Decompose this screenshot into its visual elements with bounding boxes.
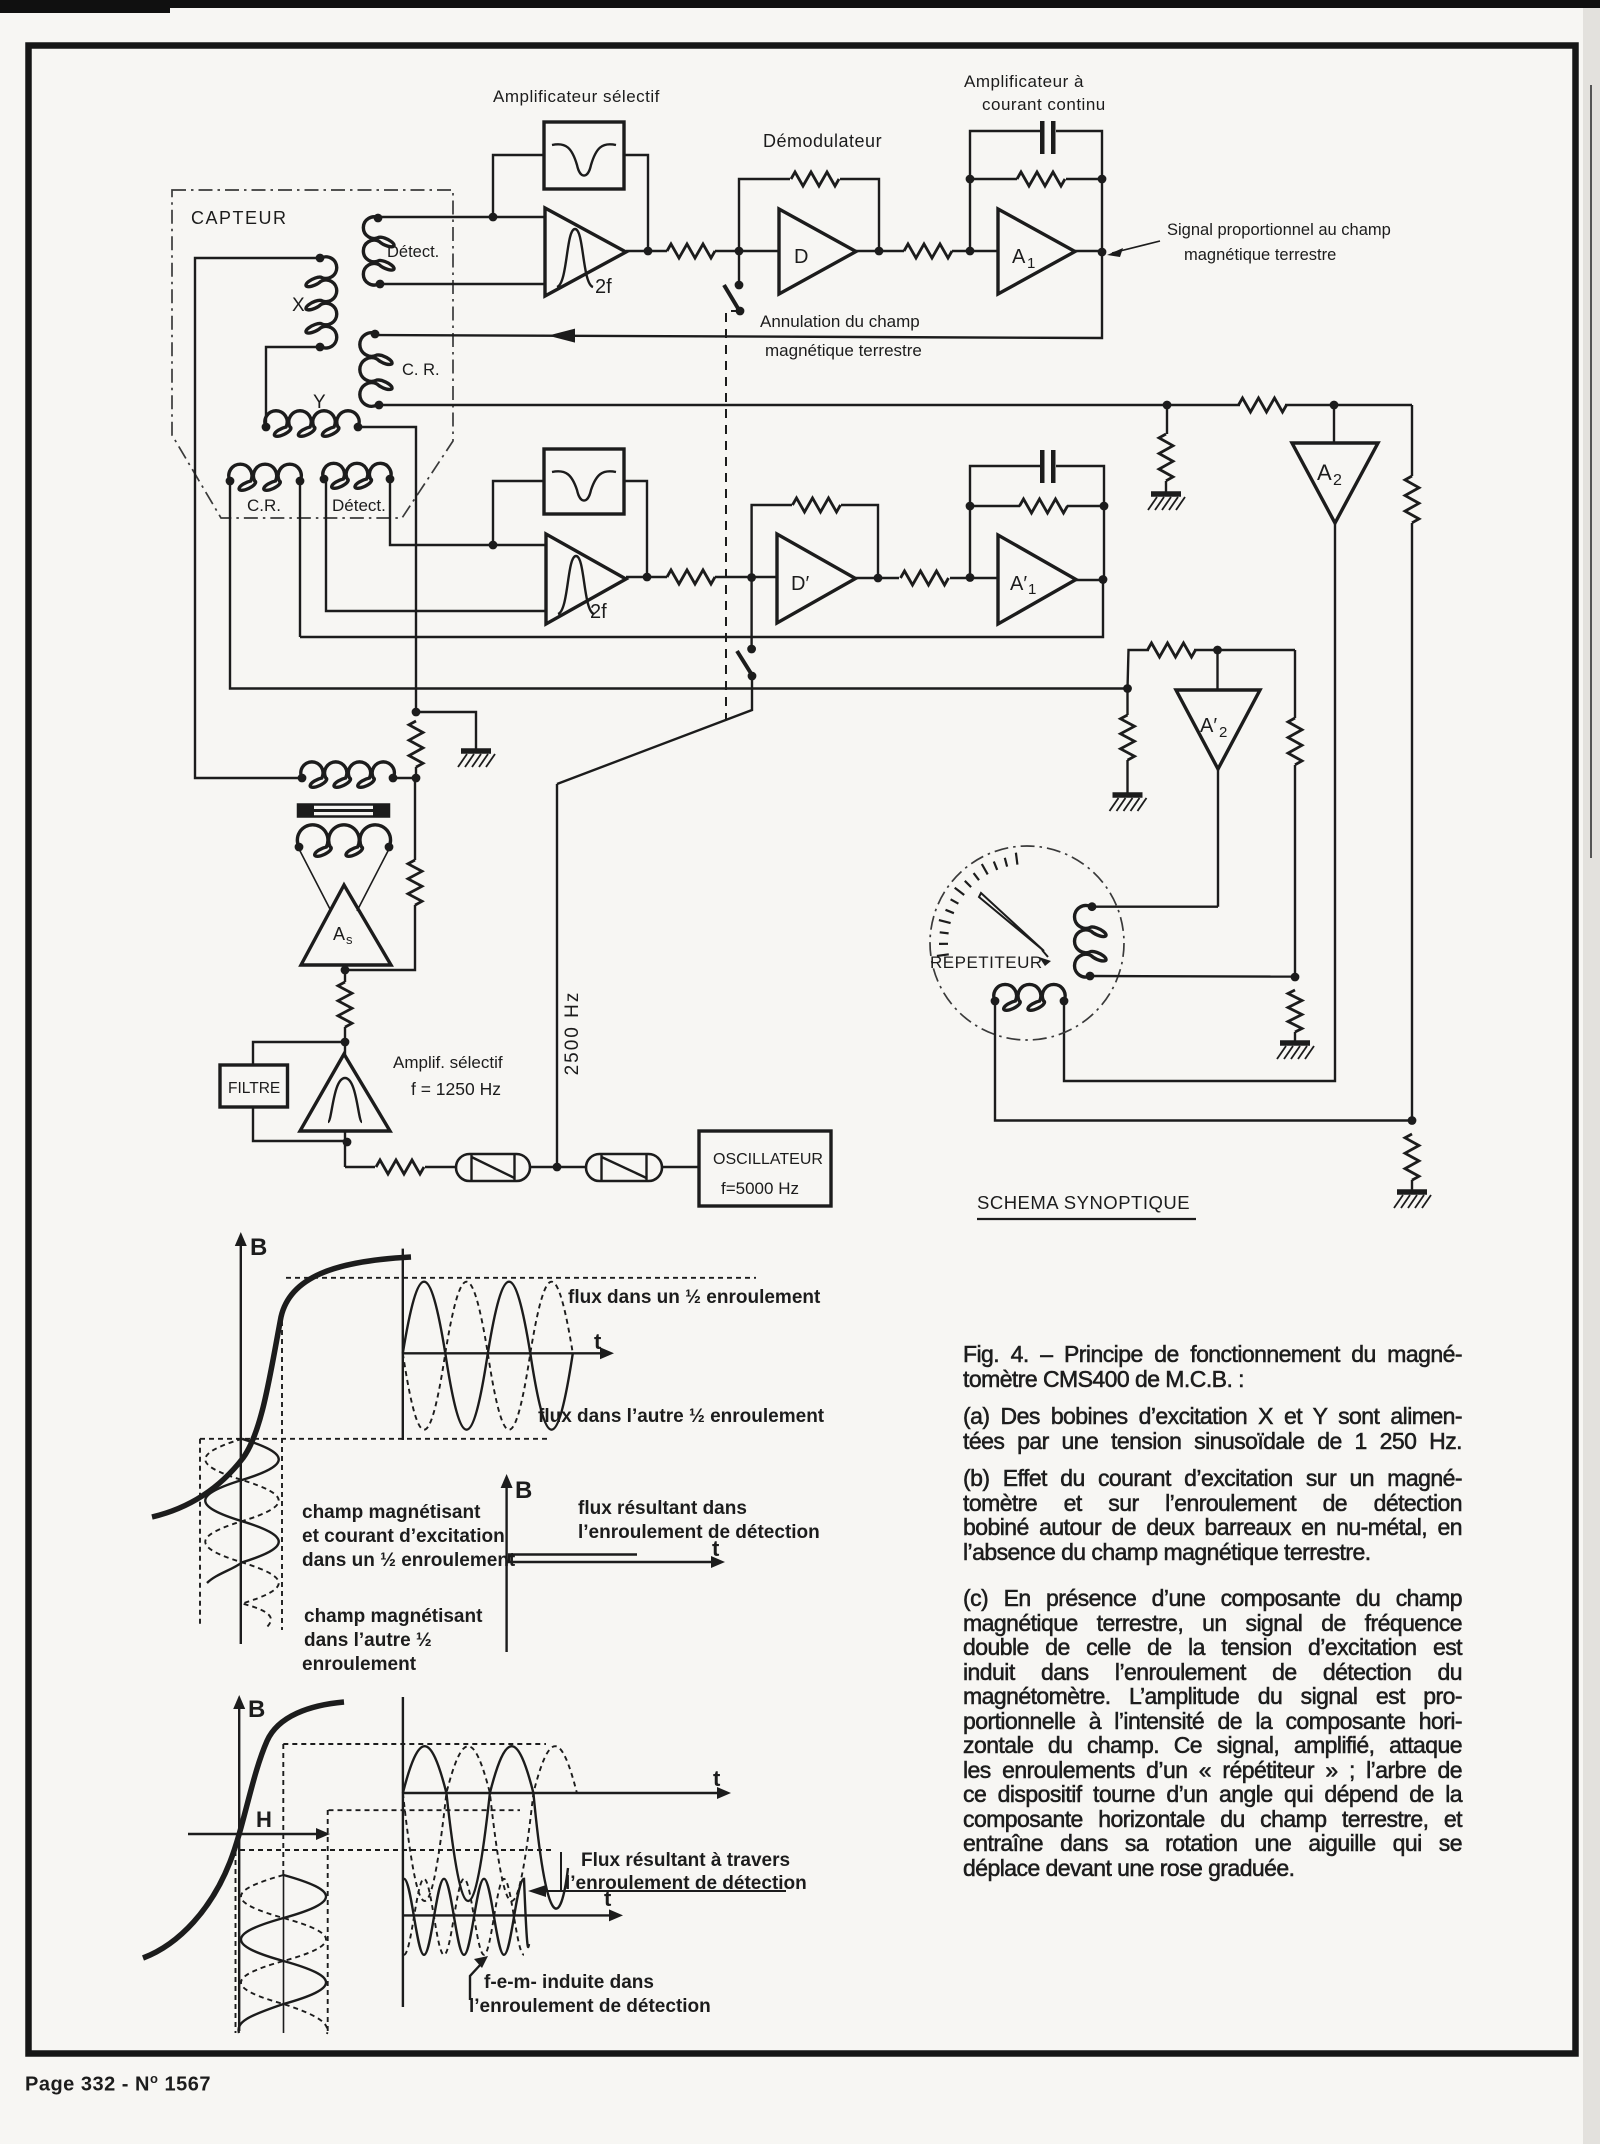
svg-text:champ magnétisant: champ magnétisant (304, 1606, 483, 1627)
op-amp D (demodulator X) (779, 209, 856, 294)
svg-text:dans l’autre ½: dans l’autre ½ (304, 1630, 432, 1651)
fig c: magnetization curve (143, 1702, 344, 1958)
A'1 feedback branch (970, 466, 1040, 578)
fig c: fem pulses solid (404, 1879, 529, 1955)
svg-text:s: s (346, 932, 353, 947)
wire (414, 778, 416, 860)
svg-text:2500 Hz: 2500 Hz (562, 991, 583, 1076)
wire (840, 179, 879, 251)
coil repeater vertical (1075, 902, 1107, 980)
page scan edge band (1583, 0, 1600, 2144)
wire (715, 576, 777, 578)
wire 2f' output (626, 576, 667, 578)
svg-text:Démodulateur: Démodulateur (763, 131, 882, 151)
oscillator box (699, 1131, 831, 1206)
svg-text:Amplif. sélectif: Amplif. sélectif (393, 1053, 503, 1072)
fig a: excitation sine (solid) (205, 1439, 279, 1583)
wire A2 output down to repeater (1064, 523, 1335, 1081)
wire As output (344, 965, 346, 982)
ground (1280, 1040, 1310, 1046)
svg-text:f=5000 Hz: f=5000 Hz (721, 1179, 799, 1198)
wire detect2 right to amp top input (390, 479, 546, 545)
op-amp 2f (X selective amplifier) (545, 208, 626, 298)
op-amp A'2 (output amplifier Y), points down (1176, 690, 1260, 769)
fig a: flux sine solid (403, 1282, 573, 1430)
fig a: B axis (240, 1240, 242, 1644)
fig c: flux sine solid (asymmetric) (403, 1746, 568, 1908)
svg-text:champ magnétisant: champ magnétisant (302, 1502, 481, 1523)
wire to demodulator (715, 250, 779, 252)
svg-text:Y: Y (313, 392, 326, 413)
dashed control line (726, 311, 740, 719)
coil Y (excitation winding Y) (262, 411, 363, 437)
fig a: magnetization curve (152, 1257, 411, 1517)
svg-text:A: A (333, 924, 345, 944)
dial tick marks (1016, 853, 1018, 865)
notch2 feedback right (624, 481, 647, 577)
wire X bottom to Y coil (266, 347, 320, 427)
resistor (D' to A'1) (901, 571, 949, 585)
D' feedback (752, 505, 792, 578)
node D output (875, 247, 884, 256)
wire (344, 1027, 346, 1056)
wire coil top to A'2 (1092, 906, 1218, 908)
svg-text:C.R.: C.R. (247, 496, 281, 515)
right vertical with resistor (1411, 405, 1413, 476)
svg-text:Amplificateur sélectif: Amplificateur sélectif (493, 87, 660, 106)
coil C.R. (Y channel compensation winding) (226, 464, 305, 490)
wire detect bottom to amp (380, 283, 545, 285)
op-amp A'1 (DC amplifier Y) (998, 535, 1076, 624)
wire primary right to node (393, 777, 416, 779)
resistor (2f' to D') (667, 570, 715, 584)
wire coil bottom to bias (1090, 975, 1295, 978)
resistor As output (338, 982, 352, 1027)
svg-text:A′: A′ (1200, 715, 1217, 737)
FILTRE box (220, 1065, 288, 1107)
notch filter box (2f channel X) (544, 122, 624, 189)
notch filter box (2f channel Y) (544, 449, 624, 514)
wire notch feedback right (624, 155, 648, 251)
resistor inline (1239, 398, 1287, 412)
fig a: dashed saturation levels (286, 1277, 756, 1279)
wire (425, 1166, 456, 1168)
fig c: fem pulses dashed (404, 1879, 524, 1955)
fig c: flux sine dashed (403, 1746, 577, 1901)
svg-text:B: B (248, 1696, 265, 1723)
node junction (489, 213, 498, 222)
fig c: excitation sine solid (239, 1875, 326, 2033)
svg-text:t: t (594, 1329, 602, 1354)
wire (1285, 404, 1412, 406)
svg-text:H: H (256, 1807, 272, 1832)
svg-text:f = 1250 Hz: f = 1250 Hz (411, 1079, 501, 1099)
wires secondary to As (299, 849, 331, 911)
wire As output to bias resistor (345, 905, 415, 970)
svg-text:B: B (250, 1234, 267, 1261)
wire A1 output (1075, 250, 1102, 252)
node A1 input (966, 247, 975, 256)
svg-text:2f: 2f (590, 601, 607, 623)
wire to oscillator (662, 1166, 699, 1168)
A1 feedback resistor branch (970, 131, 1040, 251)
fig b: B axis (505, 1482, 507, 1652)
svg-text:D′: D′ (791, 573, 809, 595)
wire C.R. bottom long line y405 (379, 404, 1240, 406)
svg-text:1: 1 (1027, 255, 1035, 272)
fig c: t axis 1 (403, 1792, 723, 1794)
svg-text:f-e-m- induite dans: f-e-m- induite dans (484, 1972, 654, 1993)
fig c: time axis vertical (402, 1697, 404, 2007)
op-amp 2f' (Y selective amplifier) (546, 534, 626, 624)
node D' input (747, 573, 756, 582)
coil C.R. (X channel compensation winding) (360, 330, 392, 410)
resistor to ground (1288, 990, 1302, 1032)
coil Detect. (Y channel detection winding) (320, 463, 395, 488)
A'2 feedback resistor (1128, 650, 1150, 689)
wire A'1 output feedback down/left (300, 580, 1103, 637)
notch2 feedback left (493, 481, 544, 545)
wire to FILTRE (253, 1042, 345, 1065)
coil Detect. (X channel detection winding) (363, 214, 394, 289)
resistor (2f to demodulator) (667, 244, 715, 258)
fig c: excitation sine dashed (241, 1875, 328, 2034)
op-amp selective 1250Hz, points up (300, 1054, 390, 1131)
resistor bias (primary node to As output) (408, 860, 422, 905)
op-amp As (oscillator amplifier), points up (301, 885, 391, 965)
wire A'2 output (1217, 769, 1219, 907)
fig a: flux sine dashed (403, 1282, 573, 1430)
resistor D feedback (791, 172, 839, 186)
node (644, 247, 653, 256)
resistor (D to A1) (904, 244, 952, 258)
wire annulation feedback (A1 out to C.R.) (375, 253, 1102, 338)
svg-text:B: B (515, 1477, 532, 1504)
fig c: dashed verticals (282, 1744, 284, 1875)
resistor below Y node (409, 721, 423, 767)
wire C.R.2 right terminal down (299, 481, 301, 637)
wire X top around to primary (195, 258, 320, 778)
coil primary (oscillator drive winding) (298, 762, 398, 787)
D feedback wires (739, 179, 790, 251)
switch S1 (X field cancel) (724, 251, 744, 315)
svg-text:l’enroulement de détection: l’enroulement de détection (578, 1522, 820, 1543)
svg-text:t: t (713, 1766, 721, 1791)
svg-text:et courant d’excitation: et courant d’excitation (302, 1526, 505, 1547)
wire C.R.2 left terminal to A'2 node (230, 481, 1128, 689)
svg-text:OSCILLATEUR: OSCILLATEUR (713, 1151, 823, 1168)
wire to ground branch (416, 712, 476, 749)
wire to A2 (1333, 405, 1335, 443)
op-amp A1 (DC amplifier X) (998, 209, 1075, 294)
svg-text:D: D (794, 246, 808, 268)
fig b: t axis (507, 1561, 717, 1563)
svg-text:1: 1 (1028, 581, 1036, 598)
fig a: time plot axis (402, 1249, 404, 1440)
coil secondary (pickup winding) (295, 825, 394, 857)
svg-text:REPETITEUR: REPETITEUR (930, 953, 1043, 972)
resistor output row (376, 1160, 424, 1174)
wire D output (856, 250, 904, 252)
svg-text:Détect.: Détect. (332, 496, 386, 515)
svg-text:flux dans un ½ enroulement: flux dans un ½ enroulement (568, 1287, 821, 1308)
svg-text:A: A (1317, 460, 1332, 485)
fig c: block centre axis (283, 1875, 285, 2033)
top page bar (0, 0, 1600, 8)
CAPTEUR enclosure (dash-dot outline) (172, 190, 453, 518)
wire A'1 output (1076, 579, 1104, 581)
svg-text:A′: A′ (1010, 573, 1027, 595)
svg-text:CAPTEUR: CAPTEUR (191, 208, 288, 228)
fig c: H axis (188, 1833, 322, 1835)
svg-text:2: 2 (1333, 472, 1342, 489)
svg-text:X: X (292, 295, 305, 316)
capacitor (A'1 integrator) (1040, 450, 1045, 483)
wire detect2 left to amp bottom input (324, 479, 546, 611)
wire amp out to row (344, 1131, 346, 1167)
ground (1397, 1189, 1427, 1195)
wire to A1 (952, 250, 998, 252)
resistor to ground at A'2 input (1121, 715, 1135, 760)
fig c: dashed levels (283, 1743, 546, 1745)
arrow annulation (548, 329, 575, 343)
svg-text:dans un ½ enroulement: dans un ½ enroulement (302, 1550, 516, 1571)
needle (979, 893, 1051, 966)
node D input (735, 247, 744, 256)
op-amp A2 (output amplifier X), points down (1292, 443, 1378, 523)
wire FILTRE bottom (253, 1107, 347, 1141)
fig a: dashed verticals (281, 1312, 283, 1630)
REPETITEUR dial (dash-dot circle) (930, 846, 1124, 1040)
branch to ground (1166, 405, 1168, 434)
svg-text:magnétique terrestre: magnétique terrestre (765, 341, 922, 360)
svg-text:l’enroulement de détection: l’enroulement de détection (469, 1996, 711, 2017)
frequency divider 2 (586, 1154, 662, 1181)
svg-text:Annulation du champ: Annulation du champ (760, 312, 920, 331)
fig a: excitation sine (dashed) (205, 1439, 279, 1628)
svg-text:FILTRE: FILTRE (228, 1080, 280, 1097)
svg-text:2: 2 (1219, 724, 1227, 741)
svg-text:flux résultant dans: flux résultant dans (578, 1498, 747, 1519)
wire detect top to amp (378, 216, 545, 218)
ground (1151, 491, 1181, 497)
wire (950, 577, 998, 579)
svg-text:courant continu: courant continu (982, 95, 1106, 114)
wire D' output (856, 577, 900, 579)
svg-text:Détect.: Détect. (387, 243, 439, 261)
wire Y coil to divider node (358, 427, 416, 712)
svg-text:enroulement: enroulement (302, 1654, 417, 1675)
fig c: t axis 2 (403, 1914, 615, 1916)
fig b: resultant flux flat line (509, 1555, 637, 1563)
svg-text:C. R.: C. R. (402, 361, 440, 379)
frequency divider 1 (456, 1154, 530, 1181)
svg-text:Signal proportionnel au cha: Signal proportionnel au champ (1167, 221, 1391, 239)
wire (415, 767, 417, 778)
wire 2500 Hz (556, 784, 558, 1167)
svg-text:A: A (1012, 246, 1026, 268)
node A1 output (1098, 248, 1107, 257)
svg-text:2f: 2f (595, 276, 612, 298)
svg-text:magnétique terrestre: magnétique terrestre (1184, 246, 1336, 264)
coil X (excitation winding X) (306, 254, 337, 352)
wire switch to 2500Hz line (557, 676, 752, 784)
wire repeater bottom coil to right rail (995, 1001, 1412, 1121)
magnetometer core bar (298, 805, 389, 817)
svg-text:flux dans l’autre ½ enroulemen: flux dans l’autre ½ enroulement (538, 1406, 825, 1427)
ground (461, 748, 491, 754)
capacitor (A1 integrator) (1040, 121, 1045, 154)
fig c: B axis (238, 1703, 240, 2031)
coil repeater horizontal (991, 984, 1069, 1010)
svg-text:Flux résultant à travers: Flux résultant à travers (581, 1850, 790, 1871)
wire amp output (626, 250, 667, 252)
ground (1113, 792, 1143, 798)
wire from bias node down (1294, 650, 1296, 718)
op-amp D' (demodulator Y) (777, 534, 856, 623)
svg-text:Amplificateur à: Amplificateur à (964, 72, 1084, 91)
wire (530, 1166, 586, 1168)
switch S2 (Y field cancel) (737, 578, 756, 681)
pointer line to A1 output (1112, 241, 1160, 253)
wire notch feedback left (493, 155, 544, 217)
svg-text:SCHEMA SYNOPTIQUE: SCHEMA SYNOPTIQUE (977, 1192, 1190, 1213)
